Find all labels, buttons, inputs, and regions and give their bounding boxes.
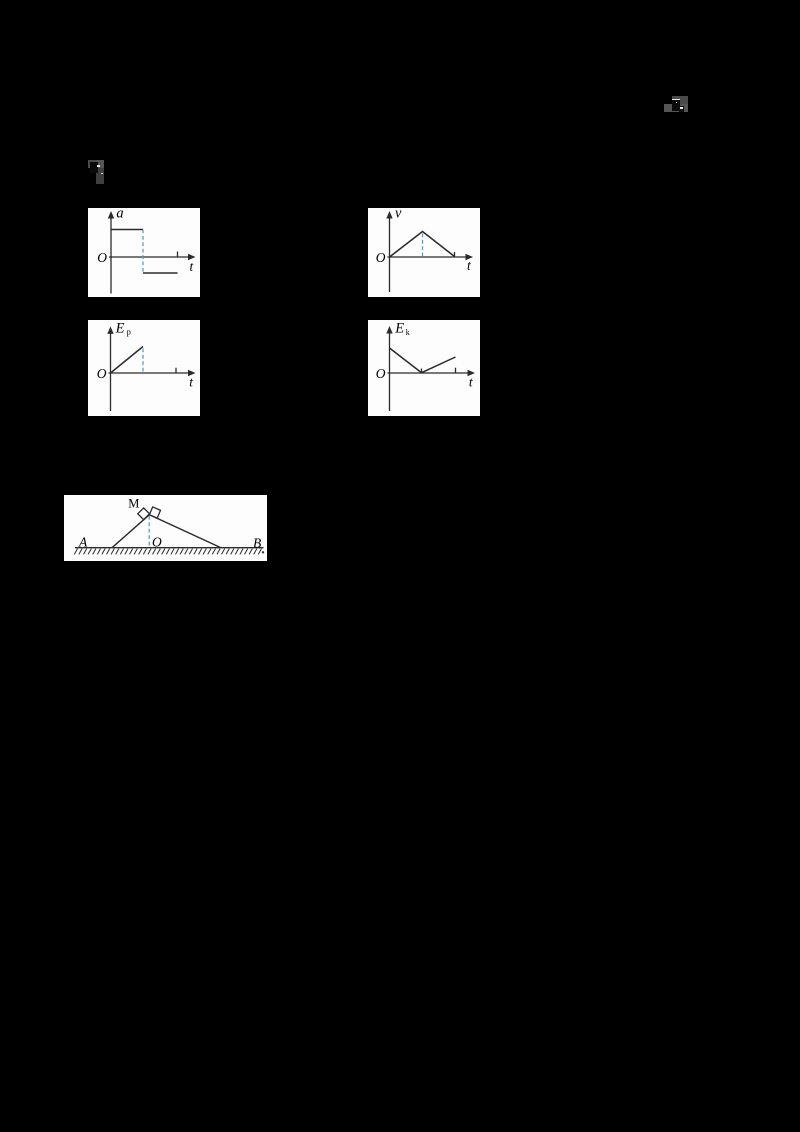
svg-text:M: M bbox=[128, 496, 139, 510]
svg-text:v: v bbox=[395, 208, 402, 222]
svg-text:O: O bbox=[376, 366, 386, 381]
svg-text:a: a bbox=[116, 208, 123, 222]
svg-text:O: O bbox=[376, 250, 386, 265]
svg-text:O: O bbox=[97, 250, 107, 265]
svg-text:O: O bbox=[97, 366, 107, 381]
svg-text:t: t bbox=[190, 259, 195, 274]
svg-text:p: p bbox=[127, 326, 131, 336]
svg-text:B: B bbox=[253, 536, 261, 551]
svg-text:t: t bbox=[467, 258, 472, 273]
svg-text:E: E bbox=[394, 320, 404, 336]
svg-text:E: E bbox=[115, 321, 125, 337]
svg-text:A: A bbox=[78, 535, 88, 550]
svg-text:t: t bbox=[469, 375, 474, 390]
svg-text:k: k bbox=[406, 328, 410, 337]
svg-text:t: t bbox=[189, 375, 194, 390]
svg-text:O: O bbox=[152, 535, 162, 550]
